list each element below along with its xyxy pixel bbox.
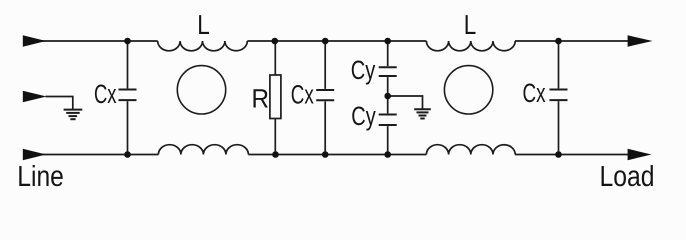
inductor L2 bottom winding — [426, 145, 515, 155]
capacitor Cx2 vertical leads — [324, 41, 326, 89]
capacitor Cx1 vertical leads — [127, 41, 129, 88]
capacitor Cx1 plates — [119, 90, 137, 101]
node junction dot Cx3 top — [555, 38, 562, 45]
inductor L1 bottom winding — [158, 145, 248, 155]
wire Cy midpoint to ground — [388, 96, 423, 109]
capacitor Cx3 vertical leads — [558, 41, 560, 88]
ground (Cy earth) — [414, 109, 431, 118]
arrow load output bottom — [628, 149, 652, 160]
wire bottom rail middle — [248, 154, 426, 156]
node junction dot Cx1 top — [124, 38, 131, 45]
inductor L2 core circle — [444, 66, 492, 114]
inductor L1 top winding — [158, 41, 248, 51]
node junction dot Cx3 bottom — [555, 151, 562, 158]
wire top rail left — [40, 40, 158, 42]
ground (left chassis earth) — [64, 110, 83, 120]
arrow load output top — [628, 35, 653, 46]
resistor R body — [270, 75, 281, 119]
svg-text:Cy: Cy — [351, 55, 376, 85]
svg-text:Load: Load — [600, 161, 655, 193]
capacitor Cy1 plates — [379, 67, 397, 76]
wire top rail middle — [247, 40, 426, 42]
node junction dot R top — [272, 38, 279, 45]
svg-text:Cy: Cy — [351, 101, 376, 131]
node junction dot R bottom — [272, 151, 279, 158]
resistor R leads — [274, 41, 276, 75]
node junction dot Cx1 bottom — [124, 151, 131, 158]
inductor L2 top winding — [426, 41, 515, 51]
capacitor Cy2 plates — [379, 115, 397, 126]
node junction dot Cy middle — [384, 93, 391, 100]
wire bottom rail right — [515, 154, 629, 156]
capacitor Cy1 leads — [387, 41, 389, 66]
capacitor Cx2 plates — [316, 90, 334, 100]
wire ground lead — [46, 97, 73, 110]
arrow ground input — [23, 91, 47, 102]
wire bottom rail left — [40, 154, 158, 156]
node junction dot Cx2 top — [322, 38, 329, 45]
node junction dot Cy top — [384, 38, 391, 45]
capacitor Cx3 plates — [550, 90, 568, 101]
capacitor Cy2 leads — [387, 96, 389, 113]
arrow line input top — [23, 35, 46, 46]
node junction dot Cx2 bottom — [322, 151, 329, 158]
svg-text:Cx: Cx — [291, 79, 314, 109]
inductor L1 core circle — [177, 66, 225, 114]
svg-text:R: R — [252, 83, 270, 113]
svg-text:L: L — [464, 9, 477, 40]
node junction dot Cy bottom — [384, 151, 391, 158]
svg-text:Cx: Cx — [523, 78, 546, 108]
arrow line input bottom — [23, 149, 46, 160]
wire top rail right — [515, 40, 629, 42]
svg-text:Line: Line — [17, 161, 64, 193]
svg-text:L: L — [197, 9, 210, 40]
svg-text:Cx: Cx — [94, 79, 117, 109]
